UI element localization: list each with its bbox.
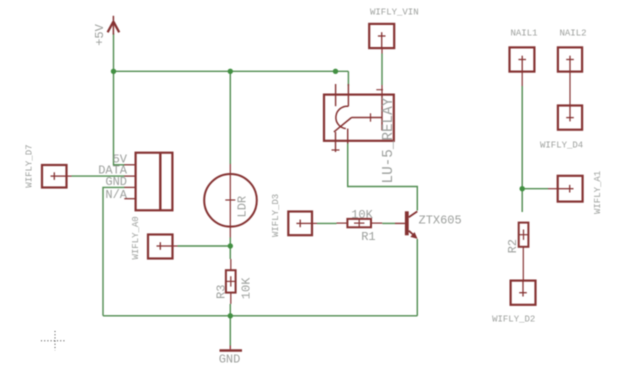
transistor Q1 ZTX605 xyxy=(395,211,418,239)
svg-text:ZTX605: ZTX605 xyxy=(419,213,462,227)
pin R1 left xyxy=(337,222,348,224)
wire D3 pad to R1 xyxy=(317,222,337,224)
pad WIFLY_A0 xyxy=(148,235,173,259)
junction N4 xyxy=(228,243,233,248)
wire R2 to D2 pad xyxy=(522,247,524,281)
wire GND pin to left rail xyxy=(103,187,125,315)
sensor U1 body xyxy=(124,153,172,211)
wire junction to R2 xyxy=(521,189,523,212)
junction N2 xyxy=(228,69,233,74)
svg-text:NAIL2: NAIL2 xyxy=(560,29,587,39)
supply +5V arrow xyxy=(108,16,120,35)
wire LDR bottom to R3 xyxy=(229,238,231,260)
pin WIFLY_A1 stub xyxy=(548,188,558,190)
pin WIFLY_D7 stub xyxy=(66,175,72,177)
svg-text:WIFLY_D2: WIFLY_D2 xyxy=(492,315,535,325)
svg-text:R3: R3 xyxy=(215,285,229,299)
wire VIN to relay coil xyxy=(381,54,383,86)
origin cross xyxy=(41,331,65,351)
wire A0 net xyxy=(178,245,231,247)
relay K1 LU-5 xyxy=(324,84,394,152)
wire relay pin2 drop xyxy=(347,71,349,86)
pad WIFLY_D7 xyxy=(42,165,67,188)
pad NAIL1 xyxy=(510,47,535,71)
pin R3 top xyxy=(230,259,232,270)
wire relay to collector xyxy=(348,143,418,211)
wire emitter to bus xyxy=(416,239,418,316)
pin relay coil top xyxy=(381,85,383,95)
wire R3 bottom to bus xyxy=(229,304,231,316)
pin WIFLY_A0 stub xyxy=(173,245,178,247)
wire junction to A1 pad xyxy=(522,188,548,190)
pin WIFLY_D3 stub xyxy=(312,222,317,224)
pad WIFLY_D3 xyxy=(288,212,312,236)
svg-text:+5V: +5V xyxy=(93,23,107,45)
junction N6 xyxy=(520,186,525,191)
svg-text:GND: GND xyxy=(105,175,127,189)
resistor R3 xyxy=(226,270,236,292)
pad WIFLY_A1 xyxy=(558,176,583,202)
svg-text:R2: R2 xyxy=(506,239,520,253)
junction N1 xyxy=(111,69,116,74)
wire +5V stem to 5V pin xyxy=(114,34,125,165)
svg-text:10K: 10K xyxy=(351,208,373,222)
wire top bus xyxy=(114,70,349,72)
wire NAIL1 down xyxy=(521,86,523,189)
junction N5 xyxy=(228,313,233,318)
svg-text:WIFLY_D4: WIFLY_D4 xyxy=(540,141,583,151)
pad NAIL2 xyxy=(558,47,582,71)
wire DATA net xyxy=(72,175,125,177)
photoresistor LDR xyxy=(204,164,257,238)
svg-text:WIFLY_D3: WIFLY_D3 xyxy=(271,194,281,237)
wire GND symbol drop xyxy=(229,316,231,346)
resistor R1 xyxy=(347,219,371,227)
svg-text:WIFLY_D7: WIFLY_D7 xyxy=(25,144,35,187)
pad WIFLY_VIN xyxy=(369,24,394,48)
pin R1 right xyxy=(371,222,382,224)
svg-text:LDR: LDR xyxy=(236,196,250,218)
wire R1 to base xyxy=(382,222,395,224)
svg-text:LU-5_RELAY: LU-5_RELAY xyxy=(381,97,397,183)
svg-text:GND: GND xyxy=(219,352,241,366)
svg-text:N/A: N/A xyxy=(105,188,127,202)
ground GND symbol xyxy=(220,346,243,351)
svg-text:WIFLY_A0: WIFLY_A0 xyxy=(131,216,141,259)
pad WIFLY_D4 xyxy=(558,106,582,130)
svg-text:WIFLY_A1: WIFLY_A1 xyxy=(593,171,603,214)
svg-text:WIFLY_VIN: WIFLY_VIN xyxy=(370,8,419,18)
wire bottom GND bus xyxy=(103,315,417,317)
pin NAIL1 stub xyxy=(521,72,523,86)
resistor R2 xyxy=(519,223,529,247)
pin R3 bottom xyxy=(230,293,232,304)
svg-text:R1: R1 xyxy=(361,230,375,244)
wire LDR top drop xyxy=(229,71,231,164)
wire NAIL2 to D4 pad xyxy=(569,72,571,106)
junction N3 xyxy=(333,69,338,74)
pin WIFLY_VIN stub xyxy=(381,48,383,53)
svg-text:NAIL1: NAIL1 xyxy=(511,29,538,39)
pad WIFLY_D2 xyxy=(511,281,536,305)
svg-text:10K: 10K xyxy=(240,277,254,299)
